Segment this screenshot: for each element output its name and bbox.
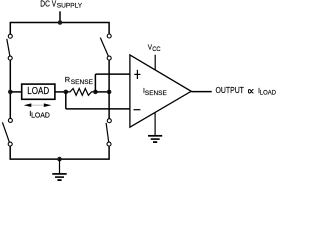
svg-text:LOAD: LOAD [31,111,50,119]
svg-text:LOAD: LOAD [27,86,49,97]
label ILOAD [29,109,50,120]
node resistor left junction [64,90,69,95]
wire load left [10,91,21,93]
arrow ILOAD (double-headed) [24,103,52,107]
switch S3 (bottom-left, open) [2,118,12,146]
node ground junction [57,157,62,162]
wire right rail mid [108,60,110,118]
wire vcc stub [154,55,156,70]
wire left rail mid [9,60,11,118]
wire resistor to right rail [95,91,109,93]
ground (op-amp) [148,113,162,142]
wire top rail [10,23,109,35]
wire plus riser [94,74,96,92]
wire minus input [66,108,130,110]
switch S2 (top-right, open) [100,34,111,60]
wire vsupply stub [59,11,61,22]
node vsupply junction [58,20,63,25]
minus sign [134,109,141,111]
wire load right [55,91,66,93]
label DC VSUPPLY [40,0,83,9]
wire output [191,91,212,93]
svg-text:SUPPLY: SUPPLY [57,2,83,9]
switch S1 (top-left, closed) [7,34,13,60]
op-amp U1 (ISENSE) [130,55,191,127]
node right rail junction [107,90,112,95]
svg-text:LOAD: LOAD [260,89,276,96]
wire bottom rail [10,146,109,159]
svg-text:CC: CC [152,46,161,53]
ground (bridge) [52,159,66,180]
node plus tap junction [93,90,98,95]
wire minus drop [65,92,67,109]
resistor RSENSE [66,89,96,96]
label RSENSE [65,75,94,86]
wire plus input [95,73,129,75]
switch S4 (bottom-right, closed) [106,119,111,146]
label ISENSE [143,86,167,97]
label VCC [148,42,161,52]
node left load junction [8,90,13,95]
plus sign [134,70,140,79]
svg-text:DC V: DC V [40,0,56,9]
svg-text:SENSE: SENSE [71,79,94,86]
symbol proportional-to [248,90,253,94]
svg-text:SENSE: SENSE [145,90,167,97]
label OUTPUT proportional ILOAD [216,86,277,97]
svg-text:R: R [65,75,70,84]
load box [22,84,55,99]
svg-text:OUTPUT: OUTPUT [216,86,244,95]
